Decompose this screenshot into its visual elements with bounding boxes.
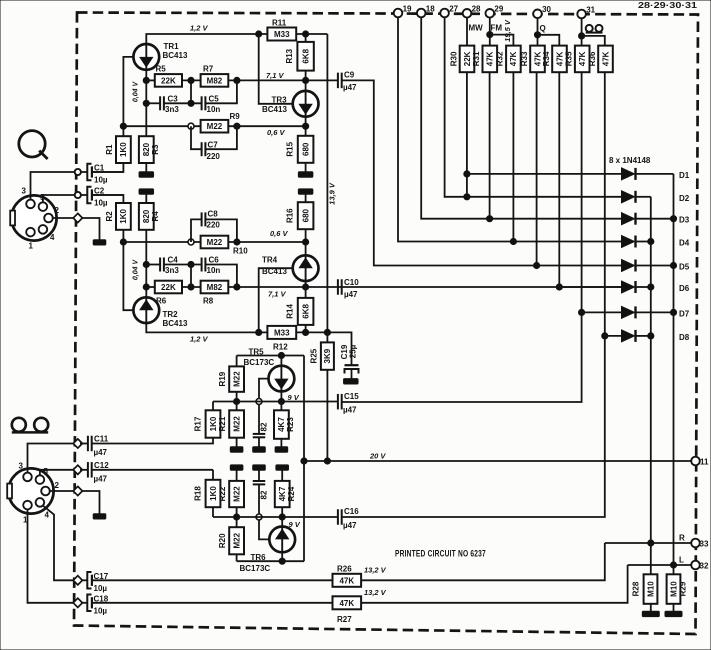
- capacitor C15 u47: [338, 392, 359, 415]
- node pin30 branch: [534, 32, 540, 38]
- wire branch pin 30 to R34: [538, 35, 560, 46]
- svg-text:20 V: 20 V: [369, 452, 386, 461]
- svg-text:R8: R8: [203, 297, 214, 306]
- ground above R4: [139, 189, 154, 194]
- svg-text:47K: 47K: [509, 51, 518, 66]
- svg-text:10n: 10n: [207, 266, 221, 275]
- wire DIN top pin5 to C2: [43, 195, 75, 203]
- wire pin 30 to R33: [537, 18, 539, 45]
- svg-text:R24: R24: [287, 486, 296, 501]
- node R9 right: [234, 123, 240, 129]
- wire C3-C5: [164, 102, 202, 104]
- label 20 V: [369, 452, 386, 461]
- node TR4 emitter: [303, 239, 309, 245]
- DIN top pin 5: [39, 193, 48, 211]
- wire R3 to ground: [145, 163, 147, 172]
- tape recorder icon small: [586, 25, 603, 33]
- wire TR2 emitter column: [145, 230, 147, 297]
- svg-text:µ47: µ47: [343, 521, 357, 530]
- svg-text:TR1: TR1: [164, 42, 180, 51]
- label 9 V TR6: [289, 520, 301, 529]
- resistor R19 M22: [218, 356, 244, 392]
- resistor R15 680: [286, 136, 314, 163]
- resistor R9 M22 feedback: [123, 112, 240, 133]
- svg-text:82: 82: [260, 422, 269, 431]
- wire R21 to ground: [236, 438, 238, 447]
- svg-text:3: 3: [22, 187, 27, 196]
- svg-text:28: 28: [472, 5, 481, 14]
- svg-text:L: L: [679, 556, 684, 565]
- svg-text:47K: 47K: [339, 599, 354, 608]
- node TR3 base tap: [256, 31, 262, 37]
- DIN bottom pin 5: [36, 467, 49, 484]
- wire R36 to D8 and C16 row: [342, 72, 605, 517]
- svg-text:19: 19: [403, 4, 412, 13]
- DIN top pin 1: [26, 228, 35, 251]
- wire TR4 base to 1,2V row: [259, 268, 293, 332]
- wire DIN top pin2 to border: [52, 217, 73, 219]
- node R33-D5: [534, 262, 540, 268]
- svg-text:M10: M10: [669, 581, 678, 597]
- svg-text:R36: R36: [588, 51, 597, 66]
- node TR4 collector: [303, 284, 309, 290]
- svg-text:D7: D7: [679, 309, 690, 318]
- node TR6 collector: [279, 558, 285, 564]
- wire C9 to D5 row: [342, 80, 537, 265]
- label 1,2 V bottom: [190, 335, 209, 344]
- svg-text:R28: R28: [632, 581, 641, 596]
- wire R23 to ground: [280, 439, 282, 447]
- node C11 border: [73, 439, 82, 448]
- wire L output line: [628, 564, 692, 566]
- svg-text:1,2 V: 1,2 V: [190, 335, 209, 344]
- wire R32 to D4: [512, 72, 514, 241]
- DIN bottom pin 3: [19, 462, 32, 482]
- label MW: [469, 24, 484, 33]
- wire TR3 base to 1,2V rail: [259, 34, 293, 104]
- wire R24 to 9V row: [281, 507, 283, 517]
- svg-text:R25: R25: [309, 348, 318, 363]
- resistor R28 M10: [632, 574, 658, 604]
- transistor TR4 BC413: [262, 255, 319, 281]
- label Q: [540, 24, 546, 33]
- svg-text:10µ: 10µ: [94, 199, 108, 208]
- svg-text:C4: C4: [168, 256, 179, 265]
- capacitor C9 u47: [338, 71, 357, 93]
- svg-text:M33: M33: [274, 328, 290, 337]
- svg-text:3: 3: [19, 462, 24, 471]
- svg-text:C16: C16: [344, 507, 359, 516]
- DIN bottom pin 4: [36, 498, 50, 519]
- svg-text:1K0: 1K0: [119, 142, 128, 157]
- resistor R11 M33: [267, 19, 296, 41]
- wire R22 to 9V row: [236, 507, 238, 517]
- resistor R35 47K: [565, 46, 590, 73]
- wire anode row D3: [490, 218, 622, 220]
- wire R33 to D5: [536, 72, 538, 265]
- svg-text:C3: C3: [168, 95, 179, 104]
- wire DIN bottom pin2 to ground: [49, 490, 73, 492]
- wire 13,9V supply line: [326, 34, 328, 332]
- svg-text:22K: 22K: [161, 283, 176, 292]
- svg-text:R: R: [679, 534, 685, 543]
- label D7: [679, 309, 690, 318]
- svg-text:C7: C7: [208, 141, 219, 150]
- svg-text:32: 32: [700, 562, 709, 571]
- wire TR6 base from 82pF: [259, 484, 269, 539]
- wire R20 to collector rail: [236, 554, 238, 561]
- svg-text:82: 82: [260, 490, 269, 499]
- wire R2 to C2 row: [92, 195, 124, 203]
- label D1: [679, 171, 690, 180]
- svg-text:10µ: 10µ: [94, 607, 108, 616]
- wire cathode D1 to bus: [636, 173, 674, 175]
- diode D8 1N4148: [622, 330, 636, 342]
- wire pin 27 to diode row D2: [445, 17, 467, 197]
- svg-text:5: 5: [44, 467, 49, 476]
- transistor TR2 BC413: [133, 297, 188, 328]
- svg-text:R9: R9: [230, 112, 241, 121]
- wire R31 to D3: [489, 72, 491, 219]
- svg-text:47K: 47K: [339, 576, 354, 585]
- svg-text:M33: M33: [274, 30, 290, 39]
- capacitor C19 25u electrolytic: [340, 344, 359, 378]
- DIN top pin 4: [39, 225, 55, 242]
- wire R10 to TR4 emitter 0,6V row: [228, 241, 305, 243]
- wire DIN bottom pin5 to C12: [40, 470, 75, 476]
- svg-text:11: 11: [700, 458, 709, 467]
- wire anode row D6: [559, 286, 621, 288]
- svg-text:47K: 47K: [578, 51, 587, 66]
- svg-text:3K9: 3K9: [323, 348, 332, 363]
- node C12 border: [73, 465, 82, 474]
- svg-text:TR4: TR4: [262, 256, 278, 265]
- wire C12 to R18: [92, 469, 213, 471]
- resistor R6 22K: [146, 281, 182, 306]
- node emitter-C4: [143, 261, 149, 267]
- cathode bus D2-D4-D6-D8 to R line: [650, 197, 652, 575]
- wire R16 to ground: [305, 194, 307, 202]
- svg-text:30: 30: [542, 5, 551, 14]
- svg-text:R5: R5: [156, 65, 167, 74]
- wire cathode D6 to bus: [636, 286, 651, 288]
- resistor R20 M22: [218, 517, 244, 554]
- capacitor C18 10u electrolytic: [81, 594, 109, 615]
- label D8: [679, 333, 690, 342]
- transistor TR1 BC413: [133, 42, 188, 70]
- ground below C19: [344, 379, 359, 384]
- wire TR5 base to 82pF: [259, 379, 269, 434]
- wire cathode D7 to bus: [636, 311, 674, 313]
- wire R24 top: [281, 470, 283, 481]
- DIN bottom pin 2: [41, 481, 59, 495]
- wire cathode D4 to bus: [636, 241, 651, 243]
- node emitter-C3: [143, 100, 149, 106]
- svg-text:C19: C19: [340, 344, 349, 359]
- svg-text:BC413: BC413: [163, 319, 188, 328]
- resistor R3 820: [139, 136, 160, 163]
- node ground border top: [73, 213, 82, 222]
- node R22-R20-row: [234, 514, 240, 520]
- svg-text:47K: 47K: [486, 51, 495, 66]
- svg-text:C5: C5: [209, 95, 220, 104]
- node bus-L line: [670, 562, 676, 568]
- wire R17 to C11 row: [92, 438, 214, 444]
- svg-text:31: 31: [586, 5, 595, 14]
- wire pin 29 to R31: [489, 18, 491, 46]
- wire R28 to ground: [650, 604, 652, 611]
- wire C18 to R27: [92, 602, 333, 604]
- svg-text:4: 4: [50, 233, 55, 242]
- wire pin 31 to R35: [581, 18, 583, 46]
- resistor R14 6K8: [286, 287, 314, 325]
- wire 9V row TR5: [213, 401, 338, 403]
- wire R6-R8: [182, 286, 201, 288]
- svg-text:28·29·30·31: 28·29·30·31: [638, 0, 697, 10]
- resistor R27 47K: [333, 596, 362, 624]
- svg-text:0,6 V: 0,6 V: [270, 229, 289, 238]
- svg-text:10µ: 10µ: [94, 584, 108, 593]
- node D4 bus: [648, 238, 654, 244]
- wire cathode D5 to bus: [636, 265, 674, 267]
- svg-text:1K0: 1K0: [209, 486, 218, 501]
- label 7,1 V top: [266, 71, 285, 80]
- node R34-D6: [556, 284, 562, 290]
- label 13,2 V upper: [364, 566, 387, 575]
- node emitter-R23-row: [278, 398, 284, 404]
- svg-text:C12: C12: [94, 461, 109, 470]
- node supply column-20V: [301, 458, 307, 464]
- DIN connector bottom shell: [7, 468, 53, 513]
- resistor R31 47K: [472, 46, 497, 73]
- svg-text:M22: M22: [232, 532, 241, 548]
- wire anode row D7: [582, 311, 622, 313]
- node C1 border: [75, 169, 81, 175]
- wire R9 to TR3 emitter 0,6V row: [228, 125, 305, 127]
- capacitor C16 u47: [338, 507, 359, 530]
- label 0,04 V rotated TR1: [132, 81, 139, 103]
- svg-text:R15: R15: [286, 141, 295, 156]
- svg-text:R29: R29: [679, 581, 688, 596]
- node R35-D7: [579, 309, 585, 315]
- svg-text:TR5: TR5: [249, 348, 265, 357]
- svg-text:M22: M22: [232, 371, 241, 387]
- transistor TR3 BC413: [262, 91, 319, 117]
- wire R18 to 9V row: [212, 507, 214, 517]
- label D6: [679, 284, 690, 293]
- wire pin 18 to diode row D3: [421, 17, 489, 218]
- wire anode row D8: [605, 335, 622, 337]
- diode D2 1N4148: [622, 191, 636, 203]
- wire R29 to ground: [673, 604, 675, 611]
- capacitor C5 10n: [202, 95, 221, 115]
- svg-text:27: 27: [449, 4, 458, 13]
- svg-text:7,1 V: 7,1 V: [268, 290, 287, 299]
- capacitor C12 u47: [80, 461, 109, 484]
- svg-text:µ47: µ47: [344, 290, 358, 299]
- resistor R8 M82: [201, 281, 229, 306]
- ground bottom DIN shield: [93, 514, 106, 519]
- wire DIN top pin3 to C1: [31, 172, 75, 200]
- svg-text:R4: R4: [151, 211, 160, 222]
- DIN top pin 2: [44, 206, 59, 222]
- svg-text:22K: 22K: [161, 76, 176, 85]
- svg-text:2: 2: [55, 206, 60, 215]
- capacitor C1 10u electrolytic: [81, 164, 108, 185]
- title printed circuit no 6237: [395, 548, 486, 558]
- svg-text:0,04 V: 0,04 V: [132, 259, 139, 281]
- node base-R9 feedback: [120, 123, 126, 129]
- svg-text:R23: R23: [286, 417, 295, 432]
- DIN bottom pin 1: [23, 501, 32, 525]
- resistor R25 3K9: [309, 332, 334, 369]
- svg-text:M82: M82: [207, 76, 223, 85]
- svg-text:R27: R27: [337, 615, 352, 624]
- wire TR6 collector lead: [281, 552, 283, 561]
- svg-text:220: 220: [207, 221, 221, 230]
- connector pin 33: [691, 539, 709, 549]
- svg-text:1,2 V: 1,2 V: [190, 24, 209, 33]
- svg-text:M22: M22: [207, 122, 223, 131]
- svg-text:TR2: TR2: [163, 310, 179, 319]
- wire DIN bottom pin3 to C11: [28, 444, 75, 474]
- turntable icon: [19, 131, 48, 159]
- svg-text:680: 680: [301, 142, 310, 156]
- wire TR1 base: [123, 57, 133, 136]
- svg-text:47K: 47K: [555, 51, 564, 66]
- wire 20V row to pin 11: [304, 460, 691, 462]
- connector pin 29: [486, 5, 504, 18]
- svg-text:R32: R32: [496, 51, 505, 66]
- crossing base-9V row: [256, 399, 262, 405]
- svg-text:R7: R7: [203, 65, 214, 74]
- svg-text:FM: FM: [491, 24, 503, 33]
- wire 1,2V collector rail TR1: [146, 34, 267, 44]
- ground below R15: [298, 172, 313, 177]
- svg-text:25µ: 25µ: [349, 344, 358, 358]
- label 8 x 1N4148: [609, 156, 651, 165]
- svg-text:1K0: 1K0: [209, 416, 218, 431]
- label 9 V TR5: [288, 393, 300, 402]
- svg-text:47K: 47K: [601, 51, 610, 66]
- svg-text:10n: 10n: [207, 105, 221, 114]
- svg-text:M82: M82: [207, 283, 223, 292]
- wire branch pin 29 to R32: [490, 35, 514, 46]
- node R25-20V: [324, 458, 330, 464]
- svg-text:19,5 V: 19,5 V: [503, 19, 512, 42]
- capacitor C11 u47: [80, 435, 109, 458]
- wire anode row D2: [467, 196, 622, 198]
- svg-text:BC413: BC413: [262, 105, 287, 114]
- wire R34 to D6: [558, 72, 560, 287]
- wire R22 top: [236, 470, 238, 481]
- resistor R29 M10: [667, 574, 688, 604]
- diode D5 1N4148: [622, 260, 636, 272]
- DIN top pin 3: [22, 187, 35, 209]
- svg-text:22K: 22K: [463, 51, 472, 66]
- svg-text:R18: R18: [193, 486, 202, 501]
- node TR4 base tap: [256, 329, 262, 335]
- label R output: [679, 534, 685, 543]
- label 13,9 V rotated: [328, 182, 337, 205]
- ground below R21: [230, 447, 243, 452]
- wire TR4 collector lead: [305, 281, 307, 287]
- wire R30 to D1/D2 rows: [466, 72, 468, 197]
- svg-text:MW: MW: [469, 24, 484, 33]
- svg-text:R12: R12: [273, 343, 288, 352]
- resistor R21 M22: [218, 402, 244, 438]
- svg-text:D3: D3: [679, 216, 690, 225]
- svg-text:µ47: µ47: [94, 448, 108, 457]
- resistor R33 47K: [520, 46, 545, 73]
- label D3: [679, 216, 690, 225]
- svg-text:D4: D4: [679, 239, 690, 248]
- wire C3 row: [146, 102, 160, 104]
- wire R14 to row: [305, 325, 307, 333]
- node C4-C6: [188, 261, 194, 267]
- ground below 82 cap: [253, 447, 266, 452]
- svg-text:3n3: 3n3: [165, 105, 179, 114]
- wire R26 to R output line: [361, 543, 605, 580]
- label D4: [679, 239, 690, 248]
- node R7 right: [234, 77, 240, 83]
- ground above R22: [230, 465, 243, 470]
- resistor R24 4K7: [275, 481, 296, 507]
- wire rail M33 to 13,9V line: [296, 33, 327, 35]
- svg-text:R34: R34: [542, 51, 551, 66]
- wire cathode D8 to bus: [636, 335, 651, 337]
- node TR3 collector: [303, 77, 309, 83]
- connector pin 27: [440, 4, 458, 17]
- label 0,04 V rotated TR2: [132, 259, 139, 281]
- wire R13 to TR3: [305, 71, 307, 91]
- capacitor 82 TR6 base: [253, 470, 269, 499]
- svg-text:D2: D2: [679, 194, 690, 203]
- transistor TR5 BC173C: [244, 348, 295, 392]
- capacitor C2 10u electrolytic: [81, 187, 108, 208]
- wire C2 to R2: [92, 194, 123, 196]
- diode D1 1N4148: [622, 168, 636, 180]
- svg-text:M22: M22: [207, 238, 223, 247]
- svg-text:13,2 V: 13,2 V: [364, 588, 387, 597]
- node R10 right: [234, 239, 240, 245]
- wire TR5 emitter: [280, 392, 282, 402]
- svg-text:820: 820: [142, 209, 151, 223]
- svg-text:C11: C11: [94, 435, 109, 444]
- svg-text:BC413: BC413: [163, 51, 188, 60]
- svg-text:6K8: 6K8: [301, 304, 310, 319]
- wire pin 19 to diode row D4: [398, 17, 513, 241]
- capacitor C4 3n3: [160, 256, 179, 276]
- svg-text:820: 820: [142, 142, 151, 156]
- wire R15 to ground: [305, 163, 307, 172]
- wire cathode D2 to bus: [636, 196, 651, 198]
- svg-text:M22: M22: [232, 486, 241, 502]
- wire C17 to R26: [92, 579, 333, 581]
- wire TR5 collector lead: [280, 356, 282, 367]
- wire TR1 emitter column: [145, 70, 147, 136]
- svg-text:R33: R33: [520, 51, 529, 66]
- resistor R16 680: [286, 202, 314, 229]
- label 7,1 V bottom: [268, 290, 287, 299]
- wire TR5/TR6 collector supply column: [303, 356, 305, 562]
- wire TR2 base: [123, 230, 133, 310]
- ground top DIN shield: [93, 240, 106, 245]
- ground below R23: [275, 447, 288, 452]
- svg-text:R20: R20: [218, 533, 227, 548]
- connector pin 28: [463, 5, 481, 18]
- node R19-R21-row: [234, 398, 240, 404]
